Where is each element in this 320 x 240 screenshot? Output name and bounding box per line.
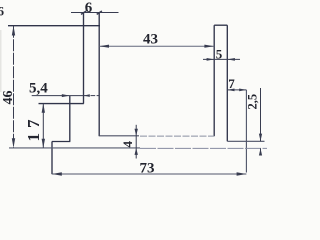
svg-text:5: 5 [216, 46, 223, 61]
main channel floor (faint in scan) [99, 135, 214, 137]
lip bottom edge + 17-dim extension [39, 103, 84, 105]
right flange top edge [214, 24, 227, 26]
dim 7: line with arrows [227, 89, 246, 91]
svg-text:6: 6 [85, 0, 93, 16]
dim 2,5: long leader with outside arrows [260, 88, 262, 141]
svg-text:4: 4 [120, 141, 135, 148]
svg-text:43: 43 [143, 31, 158, 47]
faint scan streak on left edge [0, 30, 2, 92]
svg-text:17: 17 [24, 115, 43, 142]
dim 17: vertical line with arrows [42, 104, 44, 148]
right ledge top + 2.5-dim extension [227, 140, 264, 142]
svg-text:5,4: 5,4 [29, 80, 48, 96]
left fin wall [69, 96, 71, 142]
dim 73: bottom line with arrows [52, 173, 246, 175]
dim 5,4: leader line with arrows and dashes [32, 95, 87, 97]
top edge of profile + left extension line [8, 25, 100, 27]
dim 43: horizontal line with arrows [99, 45, 214, 47]
dim 5: line with outside arrows [203, 58, 240, 60]
profile bottom-left corner + 73-dim extension [51, 142, 53, 175]
right flange right edge [226, 25, 228, 141]
svg-text:46: 46 [1, 91, 16, 105]
svg-text:7: 7 [228, 76, 235, 91]
svg-text:2,5: 2,5 [246, 94, 260, 110]
scan background [0, 0, 287, 191]
middle wall right edge [98, 13, 100, 137]
bottom outer edge (faint in scan) + extensions left/right [9, 147, 267, 150]
right flange left edge [213, 25, 215, 136]
left plate top edge [52, 141, 70, 143]
middle wall left edge [83, 13, 85, 104]
dim 6: line and slanted ticks [71, 12, 119, 14]
svg-text:73: 73 [140, 160, 155, 176]
profile right edge + extensions to 7-dim and 73-dim [245, 90, 247, 173]
svg-text:6: 6 [0, 4, 5, 19]
dim 4: vertical line through with arrows [135, 125, 137, 159]
dim 46: vertical line with arrows [13, 26, 15, 148]
